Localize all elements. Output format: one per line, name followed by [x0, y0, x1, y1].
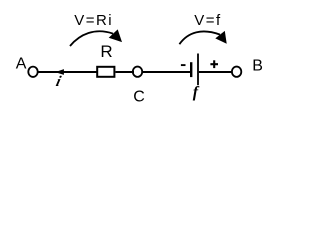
node B terminal	[232, 67, 241, 77]
svg-text:R: R	[100, 42, 112, 61]
node A terminal	[28, 67, 37, 77]
battery positive plate (long)	[197, 54, 199, 86]
svg-text:C: C	[133, 88, 145, 105]
wire resistor to node C	[116, 71, 135, 73]
wire C to battery	[143, 71, 191, 73]
node C terminal	[133, 67, 142, 77]
battery polarity +	[210, 60, 218, 68]
current direction arrowhead	[55, 69, 64, 75]
resistor R	[97, 67, 114, 77]
wire A to resistor	[39, 71, 97, 73]
voltage arrow for V=f	[179, 31, 226, 44]
svg-text:B: B	[252, 58, 263, 75]
svg-text:V=Ri: V=Ri	[74, 12, 113, 29]
battery negative plate (short)	[190, 62, 192, 77]
svg-text:V=f: V=f	[194, 12, 221, 29]
battery polarity -	[181, 64, 186, 66]
wire battery to B	[199, 71, 232, 73]
svg-text:A: A	[16, 56, 27, 73]
voltage arrow for V=Ri	[70, 29, 122, 46]
